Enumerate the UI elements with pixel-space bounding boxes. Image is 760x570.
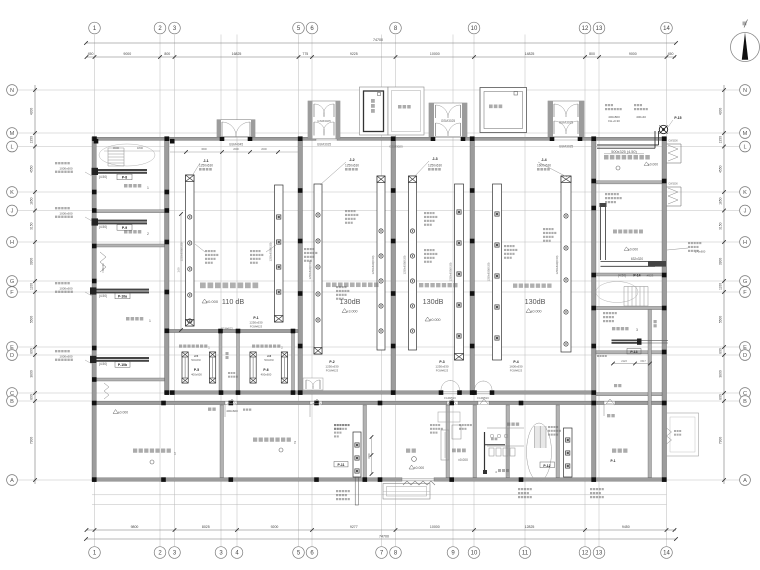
axis bubble 13 bottom bbox=[593, 547, 605, 559]
room label entrance hall bbox=[406, 449, 410, 453]
svg-text:(4.50): (4.50) bbox=[99, 362, 107, 366]
fan P-10a bbox=[91, 289, 149, 294]
wall rowA entrance threshold bbox=[402, 477, 434, 479]
svg-text:4550: 4550 bbox=[718, 165, 722, 173]
axis bubble 5 top bbox=[293, 22, 305, 34]
svg-text:F: F bbox=[10, 290, 14, 296]
svg-text:P-2: P-2 bbox=[329, 360, 334, 364]
svg-text:G: G bbox=[743, 279, 747, 285]
svg-text:4300: 4300 bbox=[718, 108, 722, 116]
svg-text:3800: 3800 bbox=[718, 370, 722, 378]
svg-text:FGM#523: FGM#523 bbox=[444, 396, 456, 400]
svg-text:10: 10 bbox=[471, 26, 478, 32]
svg-text:74700: 74700 bbox=[373, 38, 383, 42]
svg-text:P-1: P-1 bbox=[611, 459, 616, 463]
svg-text:5500: 5500 bbox=[30, 316, 34, 324]
svg-text:800: 800 bbox=[30, 394, 34, 400]
wall bay1 strip v1 bbox=[219, 333, 222, 391]
svg-text:110 dB: 110 dB bbox=[222, 297, 244, 306]
wall annex vertical bbox=[363, 405, 367, 478]
axis bubble B left bbox=[7, 396, 18, 407]
louver bay right 2 bbox=[667, 186, 682, 188]
stair left block bbox=[108, 147, 124, 149]
axis bubble 8 bottom bbox=[390, 547, 402, 559]
note vent bay4 b bbox=[543, 228, 545, 230]
note below substation bbox=[590, 488, 592, 490]
svg-text:1250x630(8.50): 1250x630(8.50) bbox=[180, 242, 184, 261]
svg-text:13: 13 bbox=[596, 26, 603, 32]
note below hall wall 1 bbox=[334, 424, 336, 426]
svg-text:F: F bbox=[743, 290, 747, 296]
vestibule A doors bbox=[222, 122, 236, 137]
wall top outer bbox=[337, 137, 433, 140]
stair right block bbox=[623, 287, 625, 307]
wall annex top bbox=[458, 401, 478, 404]
room label electric room 1 bbox=[126, 317, 129, 320]
svg-text:P-11: P-11 bbox=[338, 463, 345, 467]
svg-text:M: M bbox=[743, 131, 748, 137]
wall annex top door threshold bbox=[478, 401, 489, 403]
grid line axis K bbox=[18, 191, 739, 193]
svg-text:D: D bbox=[743, 353, 747, 359]
svg-text:1350: 1350 bbox=[718, 136, 722, 144]
wall annex vertical bbox=[506, 405, 510, 478]
svg-text:M: M bbox=[10, 131, 15, 137]
svg-text:GSM3025: GSM3025 bbox=[441, 119, 456, 123]
rack J-2 shaft R3 bbox=[314, 184, 322, 354]
room label bay3 cascade test room bbox=[419, 283, 423, 287]
svg-text:(4.50): (4.50) bbox=[99, 225, 107, 229]
wall bay3-bay4 bbox=[470, 137, 475, 395]
top segment dimension line bbox=[86, 56, 676, 58]
svg-text:800: 800 bbox=[589, 52, 595, 56]
vestibule D box bbox=[548, 101, 584, 137]
svg-text:1517: 1517 bbox=[640, 360, 646, 363]
svg-text:1850: 1850 bbox=[718, 197, 722, 205]
axis bubble M left bbox=[7, 128, 18, 139]
room label parts room 1 bbox=[124, 184, 127, 187]
note below P-11 bbox=[336, 490, 338, 492]
vestibule B doors bbox=[314, 104, 324, 117]
symbol circle op2 bbox=[279, 448, 283, 452]
svg-text:1250x630: 1250x630 bbox=[428, 164, 442, 168]
svg-text:G: G bbox=[10, 279, 14, 285]
note outside right 2 bbox=[674, 430, 676, 432]
svg-text:J-5: J-5 bbox=[194, 354, 199, 358]
ellipse equipment room1 bbox=[99, 144, 155, 166]
svg-text:2000: 2000 bbox=[261, 148, 267, 151]
vestibule C box bbox=[429, 103, 467, 137]
svg-text:14825: 14825 bbox=[525, 52, 535, 56]
svg-text:450: 450 bbox=[88, 52, 94, 56]
svg-text:3150: 3150 bbox=[30, 222, 34, 230]
left dimension line bbox=[34, 85, 36, 484]
note below P-12 bbox=[518, 488, 520, 490]
grid line axis 4 bbox=[236, 35, 238, 547]
svg-text:450: 450 bbox=[668, 52, 674, 56]
rack P-11 tail bbox=[355, 477, 358, 505]
svg-text:1100: 1100 bbox=[718, 283, 722, 290]
axis bubble 2 bottom bbox=[154, 547, 166, 559]
svg-text:GSM3025: GSM3025 bbox=[389, 145, 403, 149]
grid line axis 6 bbox=[311, 35, 313, 547]
svg-text:1: 1 bbox=[147, 186, 149, 190]
vestibule D doors bbox=[554, 104, 566, 117]
axis bubble 8 top bbox=[390, 22, 402, 34]
right porch bbox=[667, 413, 699, 456]
wall top door threshold bbox=[316, 137, 337, 139]
svg-text:J-6: J-6 bbox=[267, 354, 272, 358]
svg-text:B: B bbox=[743, 399, 747, 405]
svg-text:11: 11 bbox=[522, 551, 529, 557]
note vent w56 bbox=[304, 248, 306, 250]
grid line axis 3a bbox=[220, 35, 222, 547]
symbol circle op1 bbox=[150, 460, 154, 464]
svg-text:13: 13 bbox=[596, 551, 603, 557]
axis bubble 9 bottom bbox=[447, 547, 459, 559]
svg-text:170x600: 170x600 bbox=[695, 250, 706, 254]
washroom partitions bbox=[487, 427, 524, 429]
structural columns bbox=[92, 136, 97, 141]
note supply grille 1 bbox=[55, 162, 57, 164]
note vent bay3 b bbox=[424, 249, 426, 251]
wall annex top bbox=[92, 401, 225, 404]
wall bay1 strip v3 bbox=[292, 333, 295, 391]
axis bubble K right bbox=[740, 187, 751, 198]
svg-text:1.00: 1.00 bbox=[177, 267, 181, 273]
rack R6 bbox=[455, 184, 464, 360]
wall top outer bbox=[250, 137, 316, 140]
axis bubble H left bbox=[7, 237, 18, 248]
svg-text:P-6: P-6 bbox=[263, 368, 268, 372]
grid line axis 12 bbox=[584, 35, 586, 547]
note acetylene room bbox=[603, 312, 605, 314]
room label oil room bbox=[613, 230, 617, 234]
rack mid strip bbox=[210, 352, 216, 383]
wall top outer bbox=[463, 137, 552, 140]
axis bubble 6 top bbox=[306, 22, 318, 34]
axis bubble C left bbox=[7, 388, 18, 399]
axis bubble H right bbox=[740, 237, 751, 248]
axis bubble K left bbox=[7, 187, 18, 198]
svg-text:3800: 3800 bbox=[30, 370, 34, 378]
grid line axis 1 bbox=[94, 35, 96, 547]
svg-text:J-2: J-2 bbox=[349, 158, 354, 162]
svg-text:N: N bbox=[743, 88, 747, 94]
room label bay4 turbine test room bbox=[513, 284, 517, 288]
svg-text:5500: 5500 bbox=[718, 316, 722, 324]
door swing annex bbox=[604, 404, 615, 405]
room label acetylene bbox=[612, 327, 615, 330]
axis bubble G left bbox=[7, 276, 18, 287]
room label corridor right bbox=[654, 320, 657, 323]
svg-text:P-15: P-15 bbox=[674, 116, 681, 120]
svg-text:16825: 16825 bbox=[232, 52, 242, 56]
rack R7 bbox=[493, 184, 502, 360]
cluster leaders bay1 bbox=[195, 244, 205, 252]
room label operation test 2 bbox=[253, 438, 257, 442]
svg-text:GSM3025: GSM3025 bbox=[317, 119, 331, 123]
svg-text:500x630: 500x630 bbox=[264, 359, 274, 362]
duct P-15 bbox=[597, 144, 659, 146]
axis bubble 10 bottom bbox=[468, 547, 480, 559]
rack P-6 bbox=[250, 352, 256, 383]
axis bubble 12 top bbox=[579, 22, 591, 34]
axis bubble N left bbox=[7, 85, 18, 96]
room label corridor annex bbox=[208, 408, 211, 411]
svg-text:+3.000: +3.000 bbox=[346, 310, 357, 314]
svg-text:8025: 8025 bbox=[202, 525, 210, 529]
room label bay2 cold impact test room bbox=[326, 283, 331, 288]
note P-11 intake bbox=[334, 424, 336, 426]
svg-text:9000: 9000 bbox=[123, 52, 131, 56]
svg-text:P-9: P-9 bbox=[122, 226, 127, 230]
note vent bay4 a bbox=[504, 245, 506, 247]
svg-text:CW1500: CW1500 bbox=[668, 140, 678, 143]
svg-text:2000: 2000 bbox=[233, 148, 239, 151]
door swing annex bbox=[310, 403, 322, 405]
svg-text:1250x630: 1250x630 bbox=[345, 164, 359, 168]
svg-text:1250x630(8.50): 1250x630(8.50) bbox=[371, 255, 375, 274]
grid line axis H bbox=[18, 241, 739, 243]
wall annex top door threshold bbox=[225, 401, 237, 403]
note outside right 1 bbox=[688, 242, 690, 244]
wall bay1 strip v2 bbox=[237, 333, 240, 391]
svg-text:1250x630: 1250x630 bbox=[199, 164, 213, 168]
room label parts room 2 bbox=[124, 230, 127, 233]
door V marks annex wall bbox=[228, 399, 236, 404]
vestibule B box bbox=[308, 101, 340, 139]
fan P-13 bbox=[612, 340, 641, 344]
svg-text:3: 3 bbox=[636, 328, 638, 332]
svg-text:632x320: 632x320 bbox=[631, 257, 643, 261]
wall hall left bbox=[165, 137, 170, 395]
svg-text:FGM#523: FGM#523 bbox=[477, 396, 489, 400]
svg-text:9450: 9450 bbox=[622, 525, 630, 529]
axis bubble C right bbox=[740, 388, 751, 399]
svg-text:CW1500: CW1500 bbox=[668, 183, 678, 186]
axis bubble 1 top bbox=[89, 22, 101, 34]
svg-text:1250x630(8.50): 1250x630(8.50) bbox=[449, 262, 453, 281]
svg-text:4300: 4300 bbox=[30, 108, 34, 116]
grid line axis C bbox=[18, 392, 739, 394]
hall bottom door arcs 2 bbox=[475, 381, 484, 390]
svg-text:2123: 2123 bbox=[621, 360, 627, 363]
vestibule bay2 door bbox=[303, 378, 323, 390]
svg-text:1100: 1100 bbox=[30, 283, 34, 290]
svg-text:D: D bbox=[10, 353, 14, 359]
svg-text:400x40: 400x40 bbox=[636, 115, 646, 119]
axis bubble E right bbox=[740, 342, 751, 353]
room label bay1 horizontal test room bbox=[200, 283, 206, 289]
svg-text:3600: 3600 bbox=[113, 146, 120, 150]
svg-text:1000x600: 1000x600 bbox=[59, 166, 73, 170]
bottom segment dimension line bbox=[86, 529, 676, 531]
svg-text:4550: 4550 bbox=[30, 165, 34, 173]
rack J-4 shaft R8 bbox=[561, 176, 571, 352]
grid line axis G bbox=[18, 280, 739, 282]
axis bubble 13 top bbox=[593, 22, 605, 34]
entrance folding door bbox=[403, 481, 435, 485]
sidewalk apron line 2 bbox=[92, 504, 667, 506]
hall bottom door arcs 1 bbox=[441, 381, 451, 391]
svg-text:L: L bbox=[10, 145, 13, 151]
svg-text:1350: 1350 bbox=[30, 136, 34, 144]
room label vertical rotor 2 bbox=[252, 345, 255, 348]
svg-text:12: 12 bbox=[582, 551, 589, 557]
svg-text:H: H bbox=[743, 240, 747, 246]
svg-text:9277: 9277 bbox=[350, 525, 358, 529]
tower T1 bbox=[360, 87, 389, 135]
svg-text:P-1: P-1 bbox=[253, 316, 258, 320]
svg-text:2: 2 bbox=[147, 232, 149, 236]
svg-text:±0.000: ±0.000 bbox=[648, 163, 658, 167]
svg-text:J-3: J-3 bbox=[432, 157, 437, 161]
axis bubble 1 bottom bbox=[89, 547, 101, 559]
svg-text:9000: 9000 bbox=[629, 52, 637, 56]
axis bubble L right bbox=[740, 141, 751, 152]
wall left outer bbox=[92, 137, 96, 482]
room label substation bbox=[612, 449, 616, 453]
grid line axis E bbox=[18, 346, 739, 348]
fan P-10b bbox=[91, 357, 149, 362]
svg-text:1250x630(8.50): 1250x630(8.50) bbox=[555, 255, 559, 274]
right dimension line bbox=[723, 85, 725, 484]
svg-text:1800: 1800 bbox=[137, 146, 144, 150]
svg-text:GSM3025: GSM3025 bbox=[559, 145, 574, 149]
note top right 2 bbox=[634, 104, 636, 106]
axis bubble L left bbox=[7, 141, 18, 152]
svg-text:P-5: P-5 bbox=[194, 368, 199, 372]
note corridor fan annex bbox=[548, 426, 550, 428]
note top right 1 bbox=[605, 104, 607, 106]
svg-text:1600x630: 1600x630 bbox=[537, 164, 551, 168]
wall top door threshold bbox=[433, 137, 463, 139]
entrance steps bbox=[383, 484, 430, 500]
note supply grille 3 bbox=[55, 282, 57, 284]
svg-text:FGM#523: FGM#523 bbox=[326, 369, 339, 373]
svg-text:3900: 3900 bbox=[30, 258, 34, 266]
svg-text:J-4: J-4 bbox=[541, 158, 546, 162]
axis bubble E left bbox=[7, 342, 18, 353]
note vent bay2 a bbox=[345, 210, 347, 212]
svg-text:±0.000: ±0.000 bbox=[206, 299, 219, 304]
note below hall wall 2 bbox=[459, 424, 461, 426]
svg-text:P-13: P-13 bbox=[630, 350, 637, 354]
svg-text:10000: 10000 bbox=[430, 52, 440, 56]
wall hall bottom door threshold bbox=[475, 390, 493, 392]
wall top outer bbox=[92, 137, 222, 140]
axis bubble 14 top bbox=[661, 22, 673, 34]
wall hall bottom bbox=[165, 391, 442, 394]
wall annex vertical bbox=[220, 405, 224, 478]
svg-text:J: J bbox=[744, 209, 747, 215]
axis bubble 11 bottom bbox=[519, 547, 531, 559]
fan P-15 unit bbox=[659, 125, 667, 133]
svg-text:P-14: P-14 bbox=[633, 274, 640, 278]
svg-text:H: H bbox=[10, 240, 14, 246]
svg-text:1250x630(8.50): 1250x630(8.50) bbox=[269, 242, 273, 261]
svg-text:7900: 7900 bbox=[30, 437, 34, 445]
door zigzag left corridor bbox=[100, 252, 106, 272]
note P-13 bbox=[597, 355, 599, 357]
wall bay2-bay3 bbox=[391, 137, 396, 395]
axis bubble 5 bottom bbox=[293, 547, 305, 559]
wall right outer bbox=[662, 137, 667, 482]
wall annex top door threshold bbox=[604, 401, 615, 403]
axis bubble 6 bottom bbox=[306, 547, 318, 559]
axis bubble 3 top bbox=[169, 22, 181, 34]
wall left block int 3 bbox=[96, 378, 164, 381]
grid line axis J bbox=[18, 210, 739, 212]
wall left block int 1 bbox=[96, 210, 164, 213]
svg-text:9800: 9800 bbox=[131, 525, 139, 529]
left block stair door bbox=[104, 383, 109, 399]
wall left block int 2 bbox=[96, 244, 164, 247]
svg-text:3900: 3900 bbox=[718, 258, 722, 266]
svg-text:B: B bbox=[10, 399, 14, 405]
axis bubble B right bbox=[740, 396, 751, 407]
note supply grille 2 bbox=[55, 207, 57, 209]
rack R4 bbox=[377, 176, 385, 350]
louver bay right 1 bbox=[667, 143, 682, 145]
svg-text:3150: 3150 bbox=[718, 222, 722, 230]
grid line axis M bbox=[18, 132, 739, 134]
svg-text:±0.000: ±0.000 bbox=[414, 466, 424, 470]
axis bubble 14 bottom bbox=[661, 547, 673, 559]
note vent bay1 a bbox=[205, 250, 207, 252]
svg-text:1: 1 bbox=[149, 319, 151, 323]
grid line axis 2 bbox=[159, 35, 161, 547]
room label duty room bbox=[452, 449, 456, 453]
grid line axis 5 bbox=[298, 35, 300, 547]
rack strip 4 bbox=[281, 352, 287, 383]
svg-text:500x325 (4.50): 500x325 (4.50) bbox=[611, 150, 637, 154]
duct P-14 horizontal bbox=[601, 261, 656, 263]
label P-10b bbox=[115, 362, 130, 368]
grid line axis 9 bbox=[452, 35, 454, 547]
inner dim P-11 bbox=[371, 437, 373, 474]
svg-text:FGM#523: FGM#523 bbox=[250, 325, 263, 329]
svg-text:±0.000: ±0.000 bbox=[118, 411, 128, 415]
note vent bay1 b bbox=[250, 250, 252, 252]
fan P-8 bbox=[93, 169, 148, 174]
sidewalk apron line bbox=[92, 494, 667, 496]
wall right block int bbox=[596, 351, 662, 354]
wall right block int bbox=[596, 273, 662, 276]
vestibule C doors bbox=[436, 105, 449, 118]
svg-text:775: 775 bbox=[302, 52, 308, 56]
wall annex top door threshold bbox=[310, 401, 322, 403]
room label fuel equipment bbox=[604, 155, 608, 159]
rack R2 bbox=[275, 185, 284, 322]
svg-text:130dB: 130dB bbox=[423, 297, 444, 306]
svg-text:(4.50): (4.50) bbox=[99, 294, 107, 298]
svg-text:400x600: 400x600 bbox=[226, 409, 238, 413]
rack J-3 shaft R5 bbox=[409, 176, 417, 350]
svg-text:FGM#523: FGM#523 bbox=[436, 369, 449, 373]
stair annex bbox=[535, 426, 547, 428]
axis bubble N right bbox=[740, 85, 751, 96]
inner dim bay1 bbox=[180, 214, 182, 330]
wall hall bottom door threshold bbox=[441, 390, 460, 392]
label P-9 bbox=[117, 225, 132, 231]
svg-text:9225: 9225 bbox=[350, 52, 358, 56]
wall hall bottom bbox=[492, 391, 596, 394]
svg-text:K: K bbox=[10, 190, 14, 196]
svg-text:J-1: J-1 bbox=[203, 159, 208, 163]
svg-text:P-8: P-8 bbox=[122, 176, 127, 180]
